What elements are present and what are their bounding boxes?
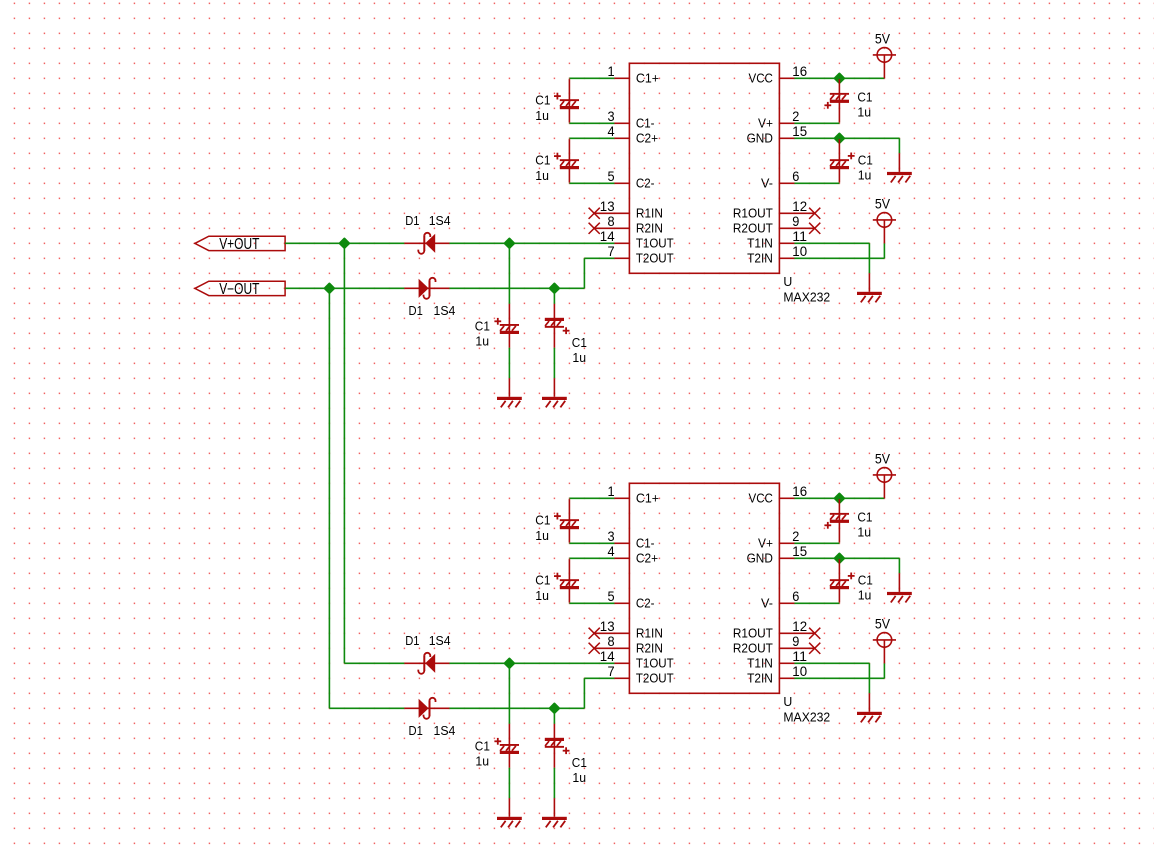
svg-text:1S4: 1S4 <box>429 213 451 228</box>
svg-text:1u: 1u <box>858 587 872 602</box>
svg-text:V-: V- <box>761 176 773 191</box>
svg-text:3: 3 <box>608 109 615 124</box>
svg-text:8: 8 <box>608 214 615 229</box>
svg-text:1u: 1u <box>535 588 549 603</box>
svg-text:R1OUT: R1OUT <box>733 206 773 221</box>
svg-text:11: 11 <box>792 229 807 244</box>
svg-text:13: 13 <box>600 199 615 214</box>
svg-text:T1OUT: T1OUT <box>636 236 674 251</box>
svg-text:14: 14 <box>600 649 615 664</box>
svg-text:9: 9 <box>792 634 799 649</box>
svg-text:D1: D1 <box>405 213 419 228</box>
svg-text:10: 10 <box>792 664 807 679</box>
svg-text:1S4: 1S4 <box>434 723 456 738</box>
svg-text:1u: 1u <box>857 105 871 120</box>
svg-text:4: 4 <box>608 544 616 559</box>
svg-text:T2IN: T2IN <box>747 671 773 686</box>
svg-text:9: 9 <box>792 214 799 229</box>
svg-text:C1: C1 <box>475 319 490 334</box>
svg-text:C1: C1 <box>535 153 550 168</box>
svg-text:1u: 1u <box>535 168 549 183</box>
svg-text:1u: 1u <box>475 753 489 768</box>
svg-text:C1+: C1+ <box>636 491 659 506</box>
svg-text:VCC: VCC <box>749 491 773 506</box>
svg-text:U: U <box>783 694 792 709</box>
svg-text:T1IN: T1IN <box>747 656 773 671</box>
svg-text:16: 16 <box>792 484 807 499</box>
svg-text:7: 7 <box>608 664 615 679</box>
svg-text:5V: 5V <box>875 32 890 47</box>
svg-text:C1-: C1- <box>636 116 655 131</box>
svg-text:C1: C1 <box>857 510 872 525</box>
svg-text:4: 4 <box>608 124 616 139</box>
svg-text:V+OUT: V+OUT <box>219 236 259 253</box>
svg-text:1u: 1u <box>535 528 549 543</box>
svg-text:2: 2 <box>792 529 799 544</box>
svg-text:15: 15 <box>792 124 807 139</box>
svg-text:GND: GND <box>747 131 773 146</box>
svg-text:T1OUT: T1OUT <box>636 656 674 671</box>
svg-text:1u: 1u <box>857 525 871 540</box>
svg-text:C2-: C2- <box>636 176 655 191</box>
svg-text:T2IN: T2IN <box>747 251 773 266</box>
svg-text:5V: 5V <box>875 617 890 632</box>
svg-text:R2IN: R2IN <box>636 221 663 236</box>
svg-text:R2OUT: R2OUT <box>733 221 773 236</box>
svg-text:C1: C1 <box>535 573 550 588</box>
svg-text:C2-: C2- <box>636 596 655 611</box>
svg-text:1: 1 <box>608 64 615 79</box>
svg-text:D1: D1 <box>409 723 423 738</box>
svg-text:12: 12 <box>792 619 807 634</box>
svg-text:R1OUT: R1OUT <box>733 626 773 641</box>
svg-text:5V: 5V <box>875 452 890 467</box>
svg-text:C1: C1 <box>572 755 587 770</box>
svg-text:V+: V+ <box>758 536 773 551</box>
svg-text:7: 7 <box>608 244 615 259</box>
svg-text:12: 12 <box>792 199 807 214</box>
svg-text:1u: 1u <box>572 350 586 365</box>
svg-text:8: 8 <box>608 634 615 649</box>
svg-text:MAX232: MAX232 <box>783 709 830 724</box>
svg-text:MAX232: MAX232 <box>783 289 830 304</box>
svg-text:V-: V- <box>761 596 773 611</box>
svg-text:1u: 1u <box>572 770 586 785</box>
svg-text:T1IN: T1IN <box>747 236 773 251</box>
svg-text:14: 14 <box>600 229 615 244</box>
svg-text:C2+: C2+ <box>636 131 658 146</box>
svg-text:C1: C1 <box>857 90 872 105</box>
svg-text:13: 13 <box>600 619 615 634</box>
svg-text:3: 3 <box>608 529 615 544</box>
svg-text:C1: C1 <box>475 739 490 754</box>
svg-text:V−OUT: V−OUT <box>219 281 259 298</box>
svg-text:1: 1 <box>608 484 615 499</box>
svg-text:C1: C1 <box>535 93 550 108</box>
svg-text:GND: GND <box>747 551 773 566</box>
svg-text:D1: D1 <box>409 303 423 318</box>
svg-text:1S4: 1S4 <box>434 303 456 318</box>
svg-text:5: 5 <box>608 169 615 184</box>
svg-text:6: 6 <box>792 169 799 184</box>
svg-text:5: 5 <box>608 589 615 604</box>
svg-text:C1: C1 <box>858 573 873 588</box>
svg-text:U: U <box>783 274 792 289</box>
svg-text:C1: C1 <box>572 335 587 350</box>
svg-text:15: 15 <box>792 544 807 559</box>
svg-text:R2OUT: R2OUT <box>733 641 773 656</box>
svg-text:11: 11 <box>792 649 807 664</box>
svg-text:1u: 1u <box>475 333 489 348</box>
svg-text:1S4: 1S4 <box>429 633 451 648</box>
svg-text:5V: 5V <box>875 197 890 212</box>
svg-text:C1: C1 <box>858 153 873 168</box>
svg-text:C1: C1 <box>535 513 550 528</box>
svg-text:10: 10 <box>792 244 807 259</box>
svg-text:6: 6 <box>792 589 799 604</box>
svg-text:1u: 1u <box>858 167 872 182</box>
svg-text:V+: V+ <box>758 116 773 131</box>
svg-text:D1: D1 <box>405 633 419 648</box>
svg-text:VCC: VCC <box>749 71 773 86</box>
svg-text:R1IN: R1IN <box>636 206 663 221</box>
svg-text:1u: 1u <box>535 108 549 123</box>
svg-text:T2OUT: T2OUT <box>636 671 674 686</box>
svg-text:C1-: C1- <box>636 536 655 551</box>
svg-text:R1IN: R1IN <box>636 626 663 641</box>
svg-text:2: 2 <box>792 109 799 124</box>
svg-text:C2+: C2+ <box>636 551 658 566</box>
svg-text:T2OUT: T2OUT <box>636 251 674 266</box>
svg-text:C1+: C1+ <box>636 71 659 86</box>
svg-text:R2IN: R2IN <box>636 641 663 656</box>
svg-text:16: 16 <box>792 64 807 79</box>
